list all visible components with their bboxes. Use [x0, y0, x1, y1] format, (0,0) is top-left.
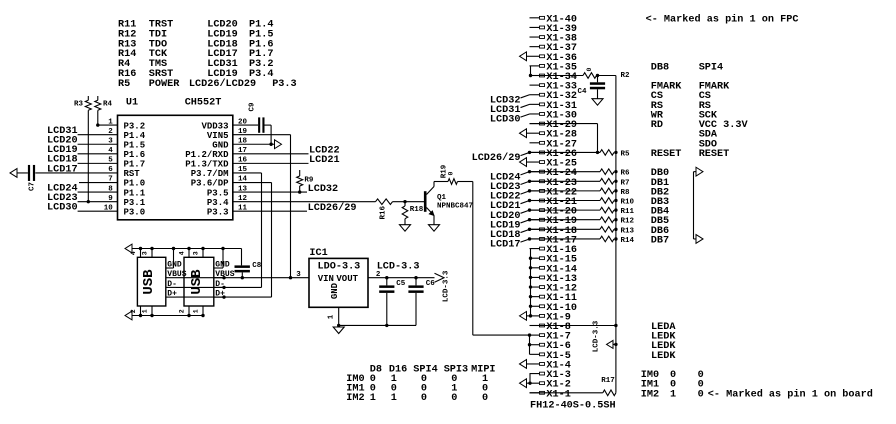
junction VOUT/C5 [385, 276, 388, 279]
connector X1 pin 32 (X1-32) [530, 91, 577, 102]
svg-text:CH552T: CH552T [185, 98, 222, 109]
U1 pin 2 (P1.4) [108, 128, 145, 141]
svg-text:3: 3 [192, 251, 199, 255]
svg-text:P3.5: P3.5 [207, 188, 229, 198]
wire U1 pin12 P3.4 to R16 [233, 201, 376, 203]
svg-text:X1-15: X1-15 [546, 255, 577, 266]
port LCD-3.3 at bus [593, 320, 618, 352]
svg-text:1: 1 [141, 309, 148, 313]
connector X1 pin 20 (X1-20) [530, 207, 577, 218]
connector X1 pin 23 (X1-23) [530, 178, 577, 189]
svg-text:P1.7: P1.7 [124, 160, 146, 170]
connector X1 pin 11 (X1-11) [530, 293, 577, 304]
U1 pin 16 (P1.3/TXD) [185, 157, 247, 170]
svg-text:LCD-3.3: LCD-3.3 [377, 262, 420, 273]
svg-text:X1-29: X1-29 [546, 120, 577, 131]
wire X1-8 to bus [530, 324, 618, 327]
wire LCD-3.3 bus (vertical) [615, 76, 617, 393]
svg-text:USB: USB [141, 269, 157, 295]
connector X1 pin 21 (X1-21) [530, 197, 577, 208]
svg-text:X1-37: X1-37 [546, 43, 577, 54]
svg-text:RD: RD [651, 120, 663, 131]
svg-text:0: 0 [698, 389, 704, 400]
junction VBUS/J2 [222, 276, 225, 279]
label LCD20 at X1-20 [490, 208, 531, 221]
wire U1 pin17 / label LCD22 [233, 146, 340, 157]
svg-text:P3.3: P3.3 [207, 207, 229, 217]
connector X1 pin 22 (X1-22) [530, 187, 577, 198]
connector X1 pin 5 (X1-5) [530, 351, 571, 362]
svg-text:4: 4 [178, 251, 185, 255]
connector X1 pin 30 (X1-30) [530, 110, 577, 121]
svg-text:IC1: IC1 [309, 248, 327, 259]
connector X1 pin 36 (X1-36) [527, 53, 577, 64]
svg-text:X1-19: X1-19 [546, 216, 577, 227]
junction R5/bus [614, 151, 617, 154]
resistor R16 [376, 199, 393, 220]
svg-text:R11: R11 [621, 208, 635, 216]
wire tie X1-16..X1-9 [529, 249, 532, 316]
label LCD30 / wire to U1 pin 10 [47, 203, 117, 214]
label LCD17 at X1-17 [490, 237, 531, 250]
resistor R2 [583, 67, 630, 80]
svg-text:R7: R7 [621, 179, 630, 187]
resistor R19 [440, 164, 457, 184]
svg-text:P3.6/DP: P3.6/DP [191, 179, 229, 189]
capacitor C6 [408, 278, 435, 326]
svg-text:R9: R9 [304, 176, 314, 184]
svg-text:2: 2 [178, 309, 185, 313]
capacitor C8 [235, 249, 262, 278]
U1 pin 14 (P3.6/DP) [191, 176, 248, 189]
svg-text:LCD-3.3: LCD-3.3 [443, 270, 451, 302]
connector X1 pin 13 (X1-13) [530, 274, 577, 285]
svg-text:X1-34: X1-34 [546, 72, 577, 83]
wire X1-1 to R17 [530, 392, 603, 394]
svg-text:USB: USB [189, 269, 205, 295]
svg-text:X1-9: X1-9 [546, 312, 570, 323]
svg-text:X1-30: X1-30 [546, 110, 577, 121]
USB J1 pin D+ [166, 290, 177, 299]
connector X1 pin 26 (X1-26) [530, 149, 577, 160]
USB J2 shield pin 3 (top) [192, 247, 204, 257]
U1 pin 19 (VIN5) [207, 128, 248, 141]
svg-text:R16: R16 [379, 205, 387, 219]
svg-text:P1.3/TXD: P1.3/TXD [185, 160, 229, 170]
junction R14/bus [614, 237, 617, 240]
label LCD23 / wire to U1 pin 9 [47, 193, 117, 204]
svg-text:X1-36: X1-36 [546, 53, 577, 64]
U1 pin 17 (P1.2/RXD) [185, 147, 247, 160]
svg-text:C4: C4 [578, 88, 588, 96]
svg-text:GND: GND [212, 140, 229, 150]
svg-text:SPI4: SPI4 [699, 62, 723, 73]
junction X1-34/C4 [596, 74, 599, 77]
label LCD18 / wire to U1 pin 5 [47, 155, 117, 166]
wire R19 to X1-7 (LED cathode net) [458, 182, 530, 336]
wire U1 pin13 / label LCD32 [233, 184, 338, 195]
svg-text:P1.0: P1.0 [124, 179, 146, 189]
svg-text:LCD17: LCD17 [490, 240, 521, 251]
port arrow at X1-25 [520, 158, 527, 167]
connector X1 pin 37 (X1-37) [530, 43, 577, 54]
resistor R11 [600, 207, 635, 216]
svg-text:D+: D+ [167, 290, 177, 299]
ground below C4 [592, 99, 603, 106]
resistor R14 [600, 236, 635, 245]
U1 pin 6 (RST) [108, 166, 140, 179]
svg-text:X1-38: X1-38 [546, 34, 577, 45]
USB J1 shield pin 3 (top) [141, 247, 153, 257]
USB J2 pin VBUS [214, 270, 235, 279]
svg-text:R17: R17 [601, 377, 615, 385]
svg-text:DB8: DB8 [651, 62, 669, 73]
connector X1 pin 6 (X1-6) [530, 341, 571, 352]
svg-text:R10: R10 [621, 199, 635, 207]
connector X1 pin 25 (X1-25) [527, 159, 577, 170]
connector X1 pin 15 (X1-15) [530, 255, 577, 266]
connector X1 pin 9 (X1-9) [527, 312, 571, 323]
svg-text:X1-39: X1-39 [546, 24, 577, 35]
svg-text:IM2: IM2 [346, 393, 364, 404]
svg-text:P3.3: P3.3 [272, 79, 296, 90]
svg-text:X1-10: X1-10 [546, 303, 577, 314]
USB J2 pin D+ [214, 290, 225, 299]
U1 pin 12 (P3.4) [207, 195, 248, 208]
wire LCD24 to resistor [530, 171, 601, 173]
svg-text:RESET: RESET [651, 149, 682, 160]
ground below Q1 emitter [429, 225, 440, 232]
connector X1 pin 16 (X1-16) [530, 245, 577, 256]
connector X1 pin 18 (X1-18) [530, 226, 577, 237]
label LCD31 / wire to U1 pin 2 [47, 126, 117, 137]
wire U1 pin1 [98, 124, 118, 126]
USB J1 pin GND [166, 247, 182, 270]
svg-text:C9: C9 [249, 102, 257, 112]
USB J2 pin D- [214, 280, 225, 289]
USB J1 shield pin 4 (top) [130, 247, 142, 257]
junction D+/J2 [222, 295, 225, 298]
svg-text:X1-14: X1-14 [546, 264, 577, 275]
U1 pin 11 (P3.3) [207, 204, 248, 217]
svg-text:3: 3 [141, 251, 148, 255]
svg-text:X1-4: X1-4 [546, 360, 570, 371]
svg-text:1: 1 [370, 393, 376, 404]
svg-text:0: 0 [451, 393, 457, 404]
connector X1 pin 7 (X1-7) [530, 332, 571, 343]
svg-text:X1-25: X1-25 [546, 159, 577, 170]
connector X1 pin 31 (X1-31) [530, 101, 577, 112]
wire LCD18 to resistor [530, 228, 601, 230]
svg-text:X1-3: X1-3 [546, 370, 570, 381]
USB J1 pin D- [166, 280, 177, 289]
svg-text:D-: D- [167, 280, 177, 289]
junction R9 / LCD32 wire [298, 190, 301, 193]
junction R7/bus [614, 180, 617, 183]
svg-text:GND: GND [330, 282, 340, 299]
junction U1 pin9 / R3 [87, 200, 90, 203]
connector X1 pin 28 (X1-28) [527, 130, 577, 141]
junction R11/bus [614, 208, 617, 211]
label LCD26/29 at X1-26 [472, 151, 532, 164]
U1 pin 13 (P3.5) [207, 185, 248, 198]
resistor R17 [601, 377, 616, 396]
svg-text:X1-32: X1-32 [546, 91, 577, 102]
svg-text:X1-21: X1-21 [546, 197, 577, 208]
table IM settings (right) [641, 370, 704, 400]
svg-text:IM2: IM2 [641, 389, 659, 400]
svg-text:LCD32: LCD32 [308, 184, 339, 195]
label LCD21 at X1-21 [490, 199, 531, 212]
table IM modes (bottom) [346, 365, 495, 405]
connector X1 pin 19 (X1-19) [530, 216, 577, 227]
svg-text:FH12-40S-0.5SH: FH12-40S-0.5SH [530, 401, 616, 412]
svg-text:R3: R3 [74, 101, 84, 109]
wire X1-7/X1-6/X1-5 tie [528, 333, 531, 354]
svg-text:LCD-3.3: LCD-3.3 [593, 320, 601, 352]
svg-text:X1-16: X1-16 [546, 245, 577, 256]
svg-text:X1-13: X1-13 [546, 274, 577, 285]
svg-text:2: 2 [130, 309, 137, 313]
svg-text:X1-23: X1-23 [546, 178, 577, 189]
resistor R10 [600, 198, 635, 207]
svg-text:GND: GND [167, 261, 182, 270]
svg-text:3: 3 [296, 271, 301, 279]
label LCD23 at X1-23 [490, 180, 531, 193]
U1 pin 7 (P1.0) [108, 176, 145, 189]
svg-text:R4: R4 [103, 101, 113, 109]
port arrow left of C7 [10, 169, 28, 178]
svg-text:X1-7: X1-7 [546, 332, 570, 343]
U1 pin 4 (P1.6) [108, 147, 145, 160]
svg-text:X1-5: X1-5 [546, 351, 570, 362]
IC U1 body [118, 115, 233, 220]
svg-text:R12: R12 [621, 218, 635, 226]
svg-text:LDO-3.3: LDO-3.3 [318, 262, 361, 273]
junction R10/bus [614, 199, 617, 202]
svg-text:P3.1: P3.1 [124, 198, 146, 208]
label LCD20 / wire to U1 pin 3 [47, 136, 117, 147]
resistor R7 [600, 178, 630, 187]
junction D-/J2 [222, 286, 225, 289]
label LCD30 at X1-30 [490, 114, 530, 126]
capacitor C7 [28, 165, 37, 191]
svg-text:1: 1 [670, 389, 676, 400]
svg-text:X1-33: X1-33 [546, 82, 577, 93]
svg-text:GND: GND [215, 261, 230, 270]
svg-text:<- Marked as pin 1 on board: <- Marked as pin 1 on board [708, 388, 873, 400]
USB J2 pin 2 (bottom) [178, 306, 190, 317]
svg-text:R5: R5 [621, 150, 631, 158]
resistor R3 [74, 96, 91, 202]
U1 pin 5 (P1.7) [108, 157, 145, 170]
port arrow USB shield (top) [125, 244, 242, 253]
svg-text:X1-35: X1-35 [546, 62, 577, 73]
wire U1 pin7 stub [79, 182, 118, 184]
USB J1 pin VBUS [166, 270, 187, 279]
svg-text:0: 0 [448, 171, 455, 175]
labels LEDA/LEDK [651, 322, 676, 362]
wire U1 pin15 P3.7/DM to USB D- [176, 173, 262, 287]
svg-text:X1-17: X1-17 [546, 235, 577, 246]
reference table top-left [118, 20, 297, 90]
label LCD18 at X1-18 [490, 228, 531, 241]
table SPI4 column [699, 82, 749, 160]
svg-text:RST: RST [124, 169, 141, 179]
svg-text:0: 0 [421, 393, 427, 404]
junction R8/bus [614, 189, 617, 192]
connector X1 pin 1 (X1-1) [530, 389, 571, 400]
port arrow USB (bottom) [125, 311, 203, 320]
connector X1 pin 10 (X1-10) [530, 303, 577, 314]
wire C9 to GND node [265, 125, 272, 144]
svg-text:X1-12: X1-12 [546, 284, 577, 295]
connector X1 pin 4 (X1-4) [527, 360, 571, 371]
connector X1 pin 40 (X1-40) [530, 14, 577, 25]
svg-text:VIN5: VIN5 [207, 131, 229, 141]
wire X1-3 to X1-2 [529, 374, 531, 384]
junction VOUT/C6 [414, 276, 417, 279]
U1 pin 15 (P3.7/DM) [191, 166, 248, 179]
label LCD22 at X1-22 [490, 189, 531, 202]
svg-text:LCD17: LCD17 [47, 164, 78, 175]
connector X1 pin 38 (X1-38) [530, 34, 577, 45]
label LCD19 / wire to U1 pin 4 [47, 145, 117, 156]
svg-text:Q1: Q1 [437, 194, 447, 202]
connector X1 pin 34 (X1-34) [530, 72, 577, 83]
resistor R5 [600, 150, 630, 159]
svg-text:P1.1: P1.1 [124, 188, 146, 198]
connector X1 pin 39 (X1-39) [530, 24, 577, 35]
svg-text:X1-27: X1-27 [546, 139, 577, 150]
wire Q1 collector to R19 [434, 181, 448, 183]
label LCD32 at X1-32 [490, 95, 530, 107]
svg-text:R5: R5 [118, 79, 130, 90]
resistor R12 [600, 217, 635, 226]
port arrow at X1-36 [520, 52, 527, 61]
USB J1 pin 1 (bottom) [141, 306, 153, 317]
svg-text:C8: C8 [252, 262, 262, 270]
svg-text:LCD30: LCD30 [47, 203, 78, 214]
port arrow at X1-4 [520, 360, 527, 369]
svg-text:R14: R14 [621, 237, 635, 245]
connector X1 pin 17 (X1-17) [530, 235, 577, 246]
U1 pin 10 (P3.0) [104, 204, 145, 217]
label LCD19 at X1-19 [490, 218, 531, 231]
svg-text:X1-18: X1-18 [546, 226, 577, 237]
resistor R4 [95, 96, 113, 125]
capacitor C9 [249, 102, 265, 133]
wire U1 pin19 VIN5 down to VBUS [233, 135, 291, 278]
svg-text:X1-2: X1-2 [546, 380, 570, 391]
svg-text:X1-40: X1-40 [546, 14, 577, 25]
svg-text:P1.6: P1.6 [124, 150, 146, 160]
USB J2 shield pin 4 (top) [178, 247, 190, 257]
wire LCD21 to resistor [530, 200, 601, 202]
wire R16 to Q1 base [393, 201, 425, 203]
capacitor C4 [578, 76, 606, 99]
USB connector J1 body [137, 257, 165, 306]
svg-text:LCD21: LCD21 [309, 155, 340, 166]
junction U1 pin1 / R4 [96, 123, 99, 126]
svg-text:<- Marked as pin 1 on FPC: <- Marked as pin 1 on FPC [646, 13, 799, 25]
svg-text:P1.5: P1.5 [124, 140, 146, 150]
svg-text:X1-8: X1-8 [546, 322, 570, 333]
wire U1 pin18 GND [233, 143, 275, 145]
wire LCD17 to resistor [530, 238, 601, 240]
svg-text:X1-22: X1-22 [546, 187, 577, 198]
svg-text:U1: U1 [126, 98, 138, 109]
svg-text:C7: C7 [29, 182, 37, 191]
svg-text:0: 0 [482, 393, 488, 404]
resistor R9 [297, 170, 314, 192]
connector X1 pin 35 (X1-35) [530, 62, 577, 73]
svg-text:X1-24: X1-24 [546, 168, 577, 179]
svg-text:DB7: DB7 [651, 235, 669, 246]
connector X1 pin 8 (X1-8) [530, 322, 571, 333]
svg-text:VDD33: VDD33 [201, 121, 228, 131]
svg-text:R18: R18 [410, 206, 424, 214]
wire U1 pin20 VDD33 to C9 [233, 124, 258, 126]
wire LCD19 to resistor [530, 219, 601, 221]
svg-text:X1-11: X1-11 [546, 293, 577, 304]
junction gnd/C5 [385, 324, 388, 327]
junction base/R18 [403, 200, 406, 203]
IC1 pin 1 GND [327, 307, 338, 325]
wire LCD22 to resistor [530, 190, 601, 192]
wire X1-35 to X1-34 [529, 66, 532, 77]
svg-text:C6: C6 [426, 280, 436, 288]
wire VBUS bus to LDO [176, 277, 309, 279]
IC IC1 LDO-3.3 body [309, 258, 368, 307]
svg-text:X1-26: X1-26 [546, 149, 577, 160]
svg-text:X1-20: X1-20 [546, 207, 577, 218]
svg-text:P1.4: P1.4 [124, 131, 146, 141]
resistor R13 [600, 227, 635, 236]
U1 pin 3 (P1.5) [108, 137, 145, 150]
IC1 pin 2 / wire VOUT [368, 271, 435, 279]
svg-text:P1.2/RXD: P1.2/RXD [185, 150, 229, 160]
connector X1 pin 3 (X1-3) [530, 370, 571, 381]
svg-text:VOUT: VOUT [336, 274, 358, 284]
port arrow GND (right) [275, 140, 282, 149]
USB J1 pin 2 (bottom) [130, 306, 142, 317]
svg-text:R6: R6 [621, 170, 631, 178]
U1 pin 1 (P3.2) [108, 118, 145, 131]
connector X1 pin 2 (X1-2) [527, 380, 571, 391]
USB J2 pin 1 (bottom) [192, 306, 204, 317]
svg-text:1: 1 [192, 309, 199, 313]
label LCD24 / wire to U1 pin 8 [47, 183, 117, 194]
ground below R18 [400, 225, 411, 232]
svg-text:X1-6: X1-6 [546, 341, 570, 352]
label LCD24 at X1-24 [490, 170, 531, 183]
connector X1 pin 24 (X1-24) [530, 168, 577, 179]
svg-text:X1-28: X1-28 [546, 130, 577, 141]
connector X1 pin 29 (X1-29) [530, 120, 577, 131]
svg-text:P3.7/DM: P3.7/DM [191, 169, 229, 179]
junction VBUS/VIN5 [289, 276, 292, 279]
U1 pin 8 (P1.1) [108, 185, 145, 198]
svg-text:P3.0: P3.0 [124, 207, 146, 217]
resistor R6 [600, 169, 630, 178]
svg-text:RESET: RESET [699, 149, 730, 160]
svg-text:1: 1 [391, 393, 397, 404]
svg-text:LCD26/29: LCD26/29 [472, 152, 521, 164]
svg-text:X1-31: X1-31 [546, 101, 577, 112]
port arrow at X1-28 [520, 129, 527, 138]
wire U1 pin16 / label LCD21 [233, 155, 340, 166]
